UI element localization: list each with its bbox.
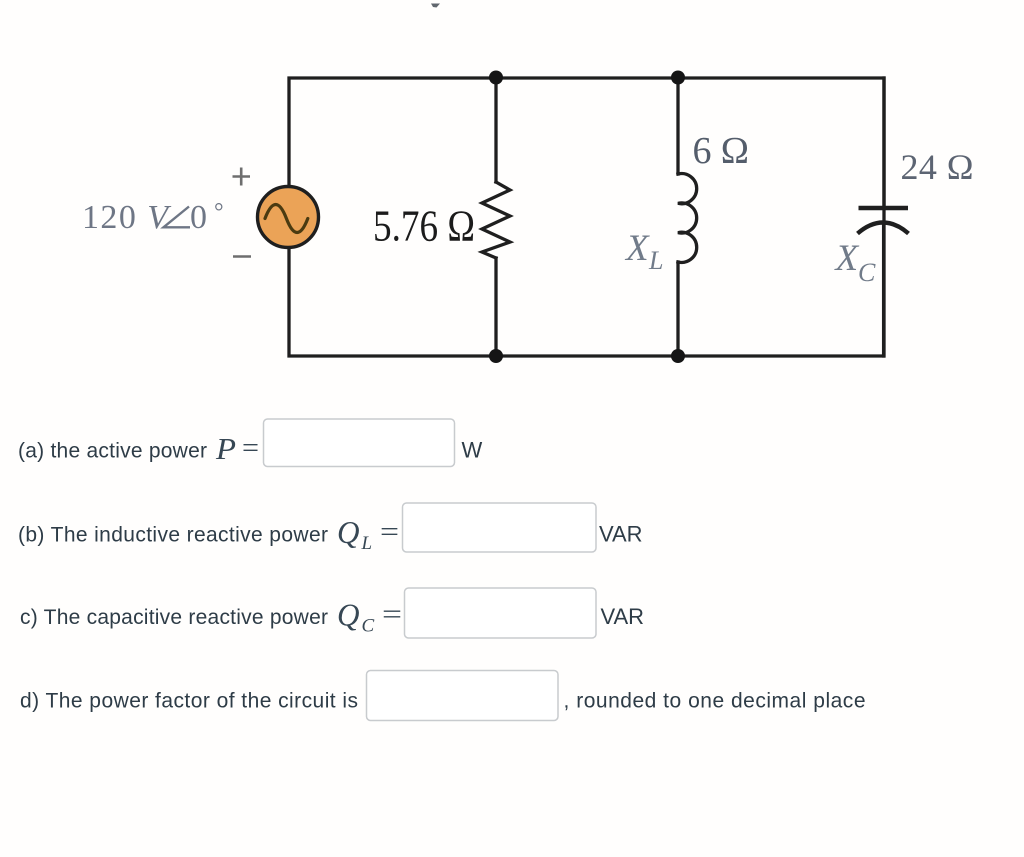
svg-text:C: C	[858, 258, 876, 287]
svg-text:d) The power factor of the cir: d) The power factor of the circuit is	[20, 690, 358, 713]
svg-text:X: X	[624, 228, 650, 269]
svg-text:X: X	[834, 238, 860, 279]
svg-text:c) The capacitive reactive pow: c) The capacitive reactive power	[20, 606, 328, 629]
svg-text:(b) The inductive reactive pow: (b) The inductive reactive power	[18, 524, 328, 547]
svg-text:6 Ω: 6 Ω	[693, 130, 750, 172]
svg-text:120 V: 120 V	[82, 199, 172, 236]
svg-text:=: =	[382, 599, 402, 631]
svg-text:W: W	[462, 438, 483, 463]
svg-text:VAR: VAR	[601, 604, 645, 629]
svg-text:(a) the active power: (a) the active power	[18, 440, 207, 463]
svg-text:=: =	[380, 516, 399, 548]
svg-text:24 Ω: 24 Ω	[901, 147, 974, 187]
svg-text:L: L	[648, 246, 663, 275]
svg-text:°: °	[214, 200, 224, 226]
svg-text:=: =	[242, 432, 259, 464]
svg-text:VAR: VAR	[599, 522, 643, 547]
svg-text:0: 0	[190, 199, 207, 236]
svg-text:L: L	[361, 533, 373, 554]
svg-text:, rounded to one decimal place: , rounded to one decimal place	[564, 690, 866, 713]
svg-text:Q: Q	[337, 597, 360, 633]
svg-text:C: C	[362, 616, 375, 637]
svg-text:5.76 Ω: 5.76 Ω	[373, 202, 475, 251]
svg-text:P: P	[215, 431, 236, 466]
svg-text:Q: Q	[337, 514, 360, 550]
